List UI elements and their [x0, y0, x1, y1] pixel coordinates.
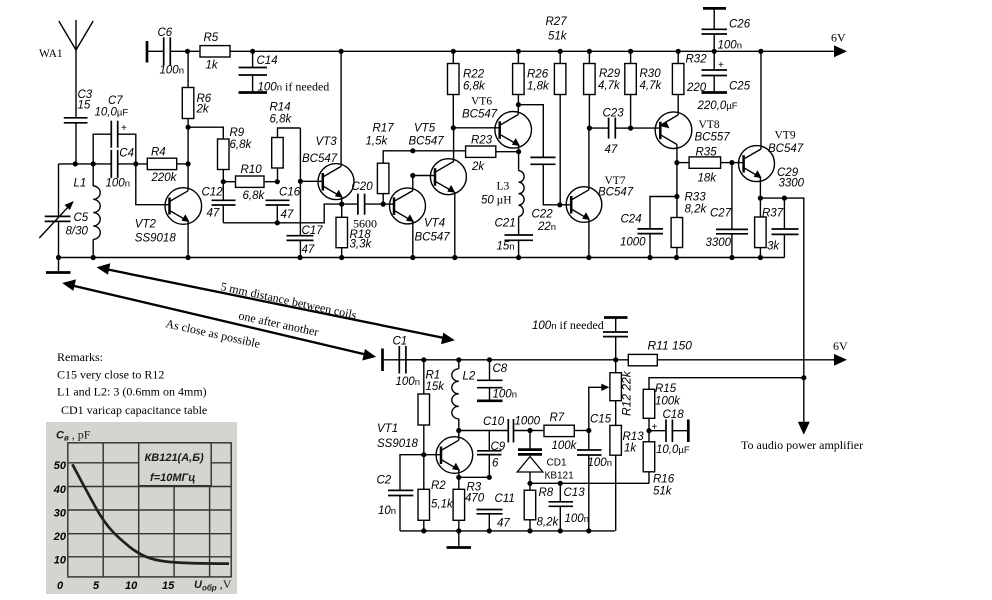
junction: R33 top / C24 node [674, 194, 679, 199]
junction: R30 on top rail [628, 49, 633, 54]
annotation arrow: As close as possible [62, 279, 376, 360]
svg-text:1000: 1000 [515, 416, 541, 428]
resistor R15 100k [643, 383, 681, 431]
svg-text:VT7: VT7 [605, 175, 626, 187]
wire: VT5 base [413, 175, 435, 177]
resistor R6 2k [182, 51, 212, 127]
junction: VT2 emitter bottom [186, 255, 191, 260]
pointer arrow: C15 node to R12 [589, 384, 610, 431]
resistor R27 51k [546, 16, 568, 205]
resistor R18 3,3k [336, 204, 372, 257]
svg-text:470: 470 [465, 493, 485, 505]
graph legend inset box [139, 443, 212, 486]
svg-text:1000: 1000 [620, 237, 646, 249]
svg-text:47: 47 [281, 209, 294, 221]
wire: R4 right to junction [177, 163, 188, 165]
svg-text:L3: L3 [497, 181, 510, 193]
junction: R29 on top rail [587, 49, 592, 54]
resistor R17 1,5k [366, 123, 413, 205]
capacitor C24 1000 [620, 197, 677, 258]
resistor R37 3k [755, 198, 784, 257]
capacitor C8 100n (bypass to terminal) [477, 360, 517, 401]
svg-text:CD1: CD1 [547, 458, 567, 469]
junction: ground symbol node [56, 255, 61, 260]
svg-text:BC557: BC557 [695, 132, 731, 144]
svg-text:L1: L1 [74, 178, 87, 190]
capacitor C16 47 [266, 187, 301, 223]
wire: node down to VT2 base [136, 164, 169, 205]
svg-text:5,1k: 5,1k [431, 499, 454, 511]
junction: R2 bottom [421, 528, 426, 533]
svg-text:8,2k: 8,2k [537, 517, 560, 529]
junction: R14/R10/C16 node [275, 179, 280, 184]
junction: R17 top wire node [410, 148, 415, 153]
svg-text:220,0µF: 220,0µF [697, 100, 738, 112]
antenna WA1 [39, 20, 93, 118]
transistor VT9 BC547 [732, 51, 804, 198]
svg-text:51k: 51k [548, 31, 568, 43]
svg-text:R11 150: R11 150 [648, 339, 693, 353]
capacitor C2 10n [377, 455, 424, 531]
junction: VT9 emitter / R37 node [758, 196, 763, 201]
svg-text:R14: R14 [270, 102, 291, 114]
svg-text:Cв , pF: Cв , pF [56, 428, 91, 443]
capacitor C9 6 [477, 431, 506, 478]
capacitor C12 47 [202, 182, 236, 223]
capacitor C18 10,0uF (electrolytic to terminal) [649, 409, 690, 456]
svg-text:2k: 2k [196, 104, 210, 116]
junction: C15 bottom [586, 528, 591, 533]
svg-text:47: 47 [605, 144, 618, 156]
junction: CD1 bottom / R8 node [527, 481, 532, 486]
svg-text:R35: R35 [696, 147, 718, 159]
wire: VT4 base [383, 203, 394, 205]
junction: VT1 collector / L2 / C9 wire node [456, 428, 461, 433]
junction: VT3 emitter / R18 / C20 node [339, 202, 344, 207]
transistor VT1 SS9018 [377, 423, 473, 477]
svg-text:C10: C10 [483, 416, 505, 428]
junction: R33 bottom [674, 255, 679, 260]
svg-text:6,8k: 6,8k [230, 139, 253, 151]
junction: C16 bottom on return wire [275, 220, 280, 225]
junction: L1 top / C7 branch [91, 161, 96, 166]
junction: R37 bottom [758, 255, 763, 260]
graph y axis labels [53, 460, 67, 567]
inductor L2 [452, 360, 476, 431]
capacitor C21 15n [495, 218, 534, 258]
junction: VT8 collector / R35 / R33 node [674, 160, 679, 165]
junction: L2 top [456, 357, 461, 362]
junction: R35 / C27 / VT9 base node [729, 160, 734, 165]
svg-text:R30: R30 [640, 68, 662, 80]
svg-text:0: 0 [57, 580, 64, 592]
junction: R22 bottom / VT6 base [451, 125, 456, 130]
svg-text:R13: R13 [623, 431, 645, 443]
svg-text:КВ121(А,Б): КВ121(А,Б) [145, 452, 205, 464]
svg-text:10: 10 [54, 555, 67, 567]
svg-text:R37: R37 [762, 208, 784, 220]
resistor R22 6,8k [448, 51, 486, 128]
svg-text:100k: 100k [552, 440, 578, 452]
svg-text:C1: C1 [393, 336, 408, 348]
wire: tank top node [59, 163, 112, 165]
wire: lower circuit supply node [399, 359, 628, 361]
capacitor C17 47 [287, 181, 324, 257]
junction: R9/R10/C12 node [221, 179, 226, 184]
junction: R1 top [421, 357, 426, 362]
junction: VT6 collector / R26 / C22 node [516, 102, 521, 107]
svg-text:20: 20 [53, 531, 67, 543]
capacitor C20 5600 [342, 181, 384, 231]
junction: C13 top node [558, 481, 563, 486]
svg-text:R23: R23 [471, 135, 493, 147]
svg-text:R2: R2 [431, 480, 446, 492]
svg-text:+: + [652, 422, 658, 433]
svg-text:6,8k: 6,8k [270, 114, 293, 126]
svg-text:SS9018: SS9018 [377, 438, 419, 450]
wire: VT8 base [631, 127, 661, 129]
svg-text:VT1: VT1 [377, 423, 398, 435]
capacitor C11 47 [477, 493, 515, 531]
transistor VT2 SS9018 [135, 164, 202, 258]
junction: R26 on top rail [516, 49, 521, 54]
resistor R7 100k [530, 412, 589, 452]
junction: C17 bottom [298, 255, 303, 260]
transistor VT3 BC547 [300, 51, 354, 204]
wire: top 6V supply rail [188, 50, 836, 52]
svg-text:BC547: BC547 [302, 153, 338, 165]
svg-text:R1: R1 [426, 370, 441, 382]
transistor VT6 BC547 [462, 96, 532, 152]
junction: C6/R5/R6 node [185, 49, 190, 54]
capacitor C27 3300 [706, 163, 749, 258]
junction: VT4 collector / VT5 base node [410, 173, 415, 178]
svg-text:VT2: VT2 [135, 219, 157, 231]
wire: R17 top node to R23 [413, 150, 466, 152]
junction: C14 on top rail [250, 49, 255, 54]
svg-text:51k: 51k [653, 486, 673, 498]
svg-text:6V: 6V [831, 31, 846, 45]
svg-text:BC547: BC547 [768, 143, 804, 155]
capacitor C3 15 [64, 89, 93, 164]
capacitor C10 1000 [483, 416, 541, 443]
resistor R30 4,7k [625, 51, 663, 128]
junction: VT4 emitter bottom [410, 255, 415, 260]
svg-text:3k: 3k [767, 241, 780, 253]
capacitor C14 100n if needed [239, 51, 330, 93]
svg-text:BC547: BC547 [415, 232, 451, 244]
wire: R14 top feed down to VT3 base [299, 128, 301, 181]
wire: audio line below 6V crossing [803, 360, 805, 425]
svg-text:VT9: VT9 [775, 130, 796, 142]
svg-text:1k: 1k [624, 443, 637, 455]
junction: C8 top [487, 357, 492, 362]
svg-text:6V: 6V [833, 339, 848, 353]
svg-text:VT5: VT5 [414, 123, 436, 135]
wire: VT1 emitter to C9/C11 column [459, 476, 490, 478]
ground symbol (upper circuit) [46, 258, 71, 273]
junction: C29 top node [782, 196, 787, 201]
junction: C13 bottom [558, 528, 563, 533]
svg-text:R12 22k: R12 22k [620, 370, 634, 416]
junction: C24 bottom [647, 255, 652, 260]
varicap diode CD1 KB121 [517, 431, 574, 484]
junction: VT9 collector on top rail [758, 49, 763, 54]
svg-text:C22: C22 [532, 209, 554, 221]
junction: C4/C7/R4/VT2-base node [133, 161, 138, 166]
svg-text:R26: R26 [527, 69, 549, 81]
annotation arrow: 5 mm distance between coils [97, 263, 455, 344]
svg-text:R32: R32 [686, 54, 708, 66]
wire: R15 top wire [649, 378, 804, 390]
svg-text:R4: R4 [151, 147, 166, 159]
junction: R27 on top rail [558, 49, 563, 54]
resistor R29 4,7k [584, 51, 621, 128]
junction: C9/C11 node [487, 475, 492, 480]
svg-text:R7: R7 [550, 412, 565, 424]
resistor R11 150 [628, 339, 835, 366]
svg-text:R9: R9 [230, 127, 245, 139]
svg-text:VT8: VT8 [699, 119, 720, 131]
svg-text:5: 5 [93, 580, 100, 592]
svg-text:C14: C14 [257, 55, 278, 67]
svg-text:100n: 100n [493, 389, 517, 401]
svg-text:3,3k: 3,3k [350, 239, 373, 251]
svg-text:R10: R10 [241, 164, 263, 176]
svg-text:C11: C11 [495, 493, 515, 505]
junction: VT3 base node [298, 179, 303, 184]
svg-text:C6: C6 [158, 27, 173, 39]
junction: C27 bottom [729, 255, 734, 260]
resistor R9 6,8k [218, 127, 253, 182]
capacitor C6 100n with input terminal [147, 27, 188, 77]
audio output arrowhead [798, 422, 810, 435]
svg-text:100k: 100k [655, 396, 681, 408]
junction: R7 / C15 node [586, 428, 591, 433]
svg-text:10,0µF: 10,0µF [656, 444, 690, 456]
svg-text:C20: C20 [352, 181, 374, 193]
svg-text:8,2k: 8,2k [685, 204, 708, 216]
svg-text:6,8k: 6,8k [463, 81, 486, 93]
svg-text:6: 6 [492, 458, 499, 470]
junction: R30 / C23 / VT8 base node [628, 126, 633, 131]
capacitor C26 100n (bypass to terminal) [702, 8, 751, 51]
junction: R15 / R16 / C18 node [646, 428, 651, 433]
svg-text:f=10МГц: f=10МГц [150, 472, 195, 484]
resistor R32 220 [672, 51, 707, 112]
svg-text:C15: C15 [590, 414, 612, 426]
svg-text:22n: 22n [537, 221, 556, 233]
graph axes box [68, 443, 231, 577]
wire: upper circuit ground rail [59, 257, 785, 259]
svg-text:R29: R29 [599, 68, 621, 80]
svg-text:R15: R15 [655, 383, 677, 395]
svg-text:100n: 100n [565, 513, 589, 525]
svg-text:10,0µF: 10,0µF [95, 107, 129, 119]
junction: C21 bottom [516, 255, 521, 260]
wire: VT6 base [453, 127, 499, 129]
junction: R12 top / bypass node [613, 357, 618, 362]
ground symbol (lower circuit) [447, 531, 472, 548]
svg-text:15: 15 [162, 580, 175, 592]
svg-text:C23: C23 [603, 108, 625, 120]
svg-text:47: 47 [207, 208, 220, 220]
svg-text:1,5k: 1,5k [366, 136, 389, 148]
junction: R18 bottom [339, 255, 344, 260]
svg-text:C8: C8 [493, 363, 508, 375]
svg-text:50 µH: 50 µH [481, 195, 512, 207]
svg-text:КВ121: КВ121 [545, 471, 575, 482]
svg-text:2k: 2k [471, 161, 485, 173]
svg-text:15k: 15k [426, 381, 446, 393]
svg-text:CD1 varicap capacitance table: CD1 varicap capacitance table [61, 403, 207, 417]
svg-text:Remarks:: Remarks: [57, 350, 103, 364]
svg-text:3300: 3300 [706, 237, 732, 249]
svg-text:15: 15 [78, 100, 91, 112]
svg-text:3300: 3300 [779, 178, 805, 190]
svg-text:47: 47 [497, 518, 510, 530]
junction: VT1 base / R1 / R2 / C2 node [421, 452, 426, 457]
junction: R3/ground bottom [456, 528, 461, 533]
junction: VT7 emitter bottom [586, 255, 591, 260]
resistor R23 2k [466, 135, 519, 174]
wire: R6 node to R9 [188, 127, 223, 139]
svg-text:BC547: BC547 [462, 109, 498, 121]
wire: lower circuit ground rail [400, 530, 615, 532]
svg-text:WA1: WA1 [39, 48, 63, 60]
resistor R13 1k [610, 425, 644, 531]
svg-text:1,8k: 1,8k [527, 81, 550, 93]
junction: R22 on top rail [451, 49, 456, 54]
svg-text:C18: C18 [663, 409, 685, 421]
svg-text:R27: R27 [546, 16, 568, 28]
wire: tank node to R4 [118, 163, 147, 165]
capacitor C15 100n [577, 414, 612, 531]
svg-text:47: 47 [302, 244, 315, 256]
resistor R5 1k [200, 32, 230, 72]
svg-text:C21: C21 [495, 218, 516, 230]
junction: R15 top wire on audio line [801, 375, 806, 380]
junction: VT3 collector on top rail [339, 49, 344, 54]
6V arrowhead lower right [834, 354, 847, 366]
svg-text:100n: 100n [106, 178, 130, 190]
svg-text:L1 and L2: 3 (0.6mm on 4mm): L1 and L2: 3 (0.6mm on 4mm) [57, 385, 207, 399]
wire: collector node across to C10 [459, 430, 508, 432]
svg-text:6,8k: 6,8k [243, 190, 266, 202]
junction: antenna/C3 to tank node [73, 161, 78, 166]
svg-text:C5: C5 [74, 212, 89, 224]
svg-text:10n: 10n [378, 505, 396, 517]
wire: emitter node to audio takeoff [760, 198, 803, 360]
svg-text:C24: C24 [621, 214, 642, 226]
svg-text:VT3: VT3 [316, 136, 338, 148]
svg-text:220k: 220k [151, 172, 178, 184]
resistor R14 6,8k [270, 102, 301, 182]
transistor VT8 BC557 (PNP) [655, 112, 730, 163]
svg-text:To audio power amplifier: To audio power amplifier [741, 438, 863, 452]
junction: R29 / C23 / VT7 collector node [587, 126, 592, 131]
svg-text:100n if needed: 100n if needed [532, 318, 604, 332]
graph grid horizontal lines [68, 462, 231, 464]
svg-text:40: 40 [53, 484, 67, 496]
capacitor 100n if needed (lower, to terminal) [532, 318, 628, 360]
transistor VT4 BC547 [390, 176, 451, 258]
svg-text:BC547: BC547 [409, 136, 445, 148]
svg-text:50: 50 [54, 460, 67, 472]
capacitor C13 100n [549, 483, 589, 531]
junction: VT5 emitter bottom [452, 255, 457, 260]
svg-text:30: 30 [54, 507, 67, 519]
svg-text:100n: 100n [718, 40, 742, 52]
svg-text:BC547: BC547 [598, 187, 634, 199]
resistor R10 6,8k [223, 164, 277, 202]
resistor R8 8,2k [524, 483, 559, 531]
svg-text:15n: 15n [497, 241, 515, 253]
resistor R12 22k [610, 360, 634, 426]
inductor L1 [74, 164, 101, 258]
svg-text:R8: R8 [539, 487, 554, 499]
svg-text:C9: C9 [491, 441, 506, 453]
junction: R8 bottom [527, 528, 532, 533]
svg-text:100n: 100n [160, 65, 184, 77]
junction: C10 / R7 / CD1 node [527, 428, 532, 433]
svg-text:C27: C27 [710, 208, 732, 220]
varicap capacitance graph (scanned inset) [46, 422, 237, 594]
svg-text:1k: 1k [206, 60, 219, 72]
svg-text:4,7k: 4,7k [640, 80, 663, 92]
svg-text:4,7k: 4,7k [598, 80, 621, 92]
svg-text:C4: C4 [119, 148, 134, 160]
resistor R4 220k [147, 147, 177, 185]
junction: R6 bottom / R9 feed [186, 125, 191, 130]
svg-text:8/30: 8/30 [66, 226, 89, 238]
capacitor C1 100n with input terminal [383, 336, 424, 389]
junction: R32 on top rail [676, 49, 681, 54]
svg-text:+: + [121, 123, 127, 134]
svg-text:100n: 100n [588, 457, 612, 469]
svg-text:R17: R17 [373, 123, 395, 135]
capacitor C29 3300 [772, 167, 805, 258]
wire: C12/C16 bottom return to emitter node [223, 204, 341, 223]
wire: R6 bottom down to R4 node [187, 127, 189, 164]
resistor R2 5,1k [418, 455, 454, 531]
resistor R26 1,8k [513, 51, 550, 104]
svg-text:R22: R22 [463, 69, 485, 81]
capacitor C7 10,0uF (electrolytic, parallel jog) [93, 95, 136, 164]
junction: C11 bottom [487, 528, 492, 533]
svg-text:18k: 18k [698, 173, 718, 185]
graph curve [72, 464, 229, 563]
svg-text:R5: R5 [204, 32, 219, 44]
junction: C26/C25 on top rail [712, 49, 717, 54]
svg-text:C26: C26 [729, 19, 751, 31]
capacitor C4 100n [106, 148, 135, 190]
svg-text:C12: C12 [202, 187, 224, 199]
svg-text:C2: C2 [377, 475, 392, 487]
svg-text:C16: C16 [279, 187, 301, 199]
svg-text:R16: R16 [653, 474, 675, 486]
wire: CD1 bottom bias line to R16 [530, 482, 649, 484]
transistor VT5 BC547 [409, 123, 467, 258]
junction: C20 / R17 / VT4 base node [381, 202, 386, 207]
svg-text:VT6: VT6 [471, 96, 492, 108]
resistor R35 18k [677, 147, 732, 185]
junction: VT1 emitter / R3 node [456, 475, 461, 480]
remark text block [57, 350, 207, 417]
resistor R16 51k [643, 431, 675, 498]
svg-text:10: 10 [125, 580, 138, 592]
junction: L1 bottom [91, 255, 96, 260]
